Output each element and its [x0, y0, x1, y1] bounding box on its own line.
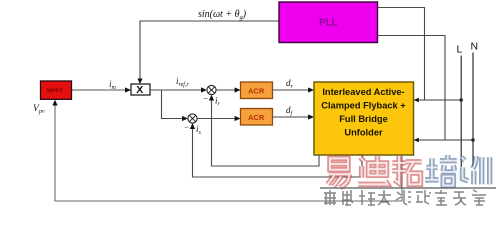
wire: upper junction to ACR1: [216, 89, 237, 91]
junction dot N: [471, 138, 474, 141]
watermark char yi: [328, 158, 351, 187]
watermark char pei: [425, 155, 457, 186]
watermark char tuo: [392, 156, 421, 184]
watermark: [320, 155, 496, 205]
svg-text:N: N: [471, 41, 479, 53]
svg-text:−: −: [203, 94, 209, 104]
svg-text:Full Bridge: Full Bridge: [339, 114, 388, 124]
svg-text:PLL: PLL: [319, 18, 338, 29]
svg-text:MPPT: MPPT: [47, 89, 64, 95]
wire: PLL right output bottom: [378, 36, 446, 141]
main converter block (yellow): [314, 82, 414, 155]
wire: lower junction to ACR2: [197, 118, 237, 120]
upper summing junction (multiplier circle): [207, 85, 216, 94]
watermark char di: [358, 156, 387, 184]
svg-text:X: X: [136, 84, 143, 96]
wire: V_pv feedback from block bottom to MPPT: [55, 103, 402, 201]
svg-text:ACR: ACR: [248, 87, 265, 96]
wire: grid N sense line into block: [414, 139, 473, 141]
wire: N line: [472, 53, 474, 169]
svg-text:Unfolder: Unfolder: [344, 128, 383, 138]
svg-text:−: −: [184, 122, 190, 132]
svg-text:Interleaved Active-: Interleaved Active-: [322, 87, 404, 97]
junction dot L: [460, 98, 463, 101]
watermark char xun: [461, 156, 489, 184]
wire: MPPT output to multiplier X: [72, 89, 128, 91]
multiplier X box: [131, 84, 150, 95]
wire: grid L sense line into block: [414, 99, 461, 101]
svg-text:ACR: ACR: [248, 113, 265, 122]
ACR block upper: [241, 82, 273, 99]
wire: X output to upper summing junction: [150, 89, 204, 91]
PLL block: [279, 2, 378, 43]
wire: sin reference from PLL to X box: [140, 21, 279, 81]
wire: i_s feedback from block bottom to lower junction: [193, 127, 363, 178]
wire: ACR2 to main block, label d_f: [273, 116, 311, 118]
ACR block lower: [241, 109, 273, 126]
wire: branch down to lower summing junction: [162, 90, 185, 119]
watermark subtitle glyphs: [324, 190, 486, 205]
MPPT block: [41, 81, 72, 99]
wire: PLL right output top: [378, 8, 425, 101]
svg-text:sin(ωt + θg): sin(ωt + θg): [198, 9, 247, 21]
wire: i_r feedback from block bottom to upper junction: [212, 98, 320, 166]
svg-text:Clamped Flyback +: Clamped Flyback +: [321, 101, 406, 111]
watermark underline: [320, 187, 496, 189]
lower summing junction (multiplier circle): [188, 114, 197, 123]
wire: ACR1 to main block, label d_r: [273, 89, 311, 91]
wire: L line: [460, 56, 462, 168]
svg-text:L: L: [457, 44, 463, 56]
